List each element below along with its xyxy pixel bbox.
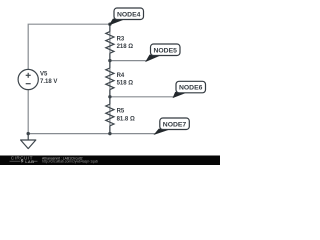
svg-text:NODE6: NODE6 xyxy=(179,85,203,92)
svg-text:NODE4: NODE4 xyxy=(117,11,141,18)
node junction R4/R5 xyxy=(108,95,111,98)
voltage source V5 xyxy=(18,69,38,89)
svg-text:R5: R5 xyxy=(117,108,125,114)
node junction bottom rail xyxy=(108,132,111,135)
svg-text:218 Ω: 218 Ω xyxy=(117,44,134,50)
node NODE7 callout xyxy=(155,118,189,134)
label V5 value xyxy=(40,72,57,86)
wire: main resistor chain vertical xyxy=(109,24,111,133)
wire: top rail from left branch to resistor chain xyxy=(28,24,110,69)
svg-text:R3: R3 xyxy=(117,36,125,42)
svg-text:81.8 Ω: 81.8 Ω xyxy=(117,116,135,122)
node junction R3/R4 xyxy=(108,59,111,62)
svg-text:LAB: LAB xyxy=(25,159,34,164)
resistor R4 xyxy=(106,61,114,97)
svg-text:R4: R4 xyxy=(117,73,125,79)
svg-text:NODE7: NODE7 xyxy=(163,121,187,128)
wire: NODE6 leader xyxy=(110,96,174,98)
node NODE5 callout xyxy=(146,44,180,61)
svg-text:NODE5: NODE5 xyxy=(153,47,177,54)
wire: NODE5 leader xyxy=(110,60,147,62)
ground xyxy=(21,134,36,149)
resistor R5 xyxy=(106,97,114,134)
svg-text:518 Ω: 518 Ω xyxy=(117,80,134,86)
node NODE6 callout xyxy=(174,81,206,97)
node NODE4 callout xyxy=(110,8,144,25)
wire: bottom rail xyxy=(28,90,155,134)
resistor R3 xyxy=(106,24,114,60)
watermark bar xyxy=(0,156,220,166)
svg-text:7.18 V: 7.18 V xyxy=(40,79,57,85)
node junction ground corner xyxy=(27,132,30,135)
watermark logo CIRCUIT LAB xyxy=(10,155,38,163)
svg-text:V5: V5 xyxy=(40,72,48,78)
svg-text:http://circuitlab.com/c/ywb4as: http://circuitlab.com/c/ywb4asp/-1qa6 xyxy=(42,160,98,164)
node junction top corner xyxy=(108,23,111,26)
